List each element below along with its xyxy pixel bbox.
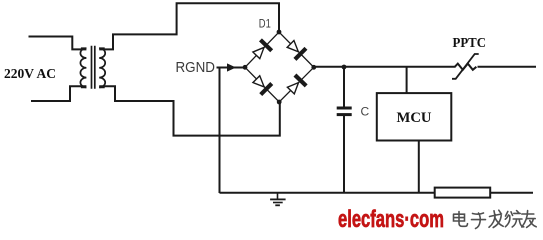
svg-text:MCU: MCU [397,110,433,126]
resistor R1 box [435,188,491,198]
svg-text:C: C [361,105,370,119]
wire output rail from bridge right node [314,66,536,68]
transformer T1 secondary coil [99,48,105,87]
char 烧 [505,211,524,227]
MCU U1 box [377,93,452,140]
svg-text:220V AC: 220V AC [4,67,56,82]
wire capacitor bottom lead [343,116,345,193]
wire AC top-left [29,37,87,50]
wire MCU top lead [406,67,408,93]
char 子 [472,213,486,229]
svg-text:D1: D1 [259,17,271,31]
PPTC zigzag element [455,64,477,70]
wire MCU bottom lead [418,141,420,194]
svg-text:RGND: RGND [176,60,216,76]
char 电 [454,212,468,227]
node bridge right [311,65,316,70]
char 友 [522,211,536,228]
transformer T1 coil end stubs [81,48,105,87]
diode D1c bottom-left (L to B) [251,74,272,95]
svg-text:PPTC: PPTC [453,35,487,50]
char 发 [489,210,503,227]
wire secondary bottom to bridge bottom node [99,86,280,135]
transformer T1 primary coil [80,48,86,87]
wire secondary top to bridge top node [99,3,279,49]
svg-text:elecfans·com: elecfans·com [338,206,444,233]
diode bridge D1 diamond edges [245,32,314,102]
node capacitor rail junction [342,65,347,70]
wire capacitor top lead [343,67,345,107]
diode D1b top-right (T to R) [285,38,306,59]
wire RGND vertical down to bottom rail [219,68,221,194]
wire AC bottom-left [31,86,86,101]
node bridge bottom [277,100,282,105]
diode D1a top-left (L to T) [251,40,272,61]
capacitor C plates [337,108,352,115]
ground symbol [270,193,286,205]
PPTC diagonal strike [452,54,479,79]
diode D1d bottom-right (B to R) [285,75,306,96]
transformer T1 core [92,46,95,89]
watermark chinese 电子发烧友 [454,210,537,228]
wire bottom rail [220,192,534,194]
node bridge left [243,65,248,70]
node bridge top [277,30,282,35]
wire RGND horizontal to bridge left node [217,67,246,69]
node RGND arrow junction [227,63,236,71]
